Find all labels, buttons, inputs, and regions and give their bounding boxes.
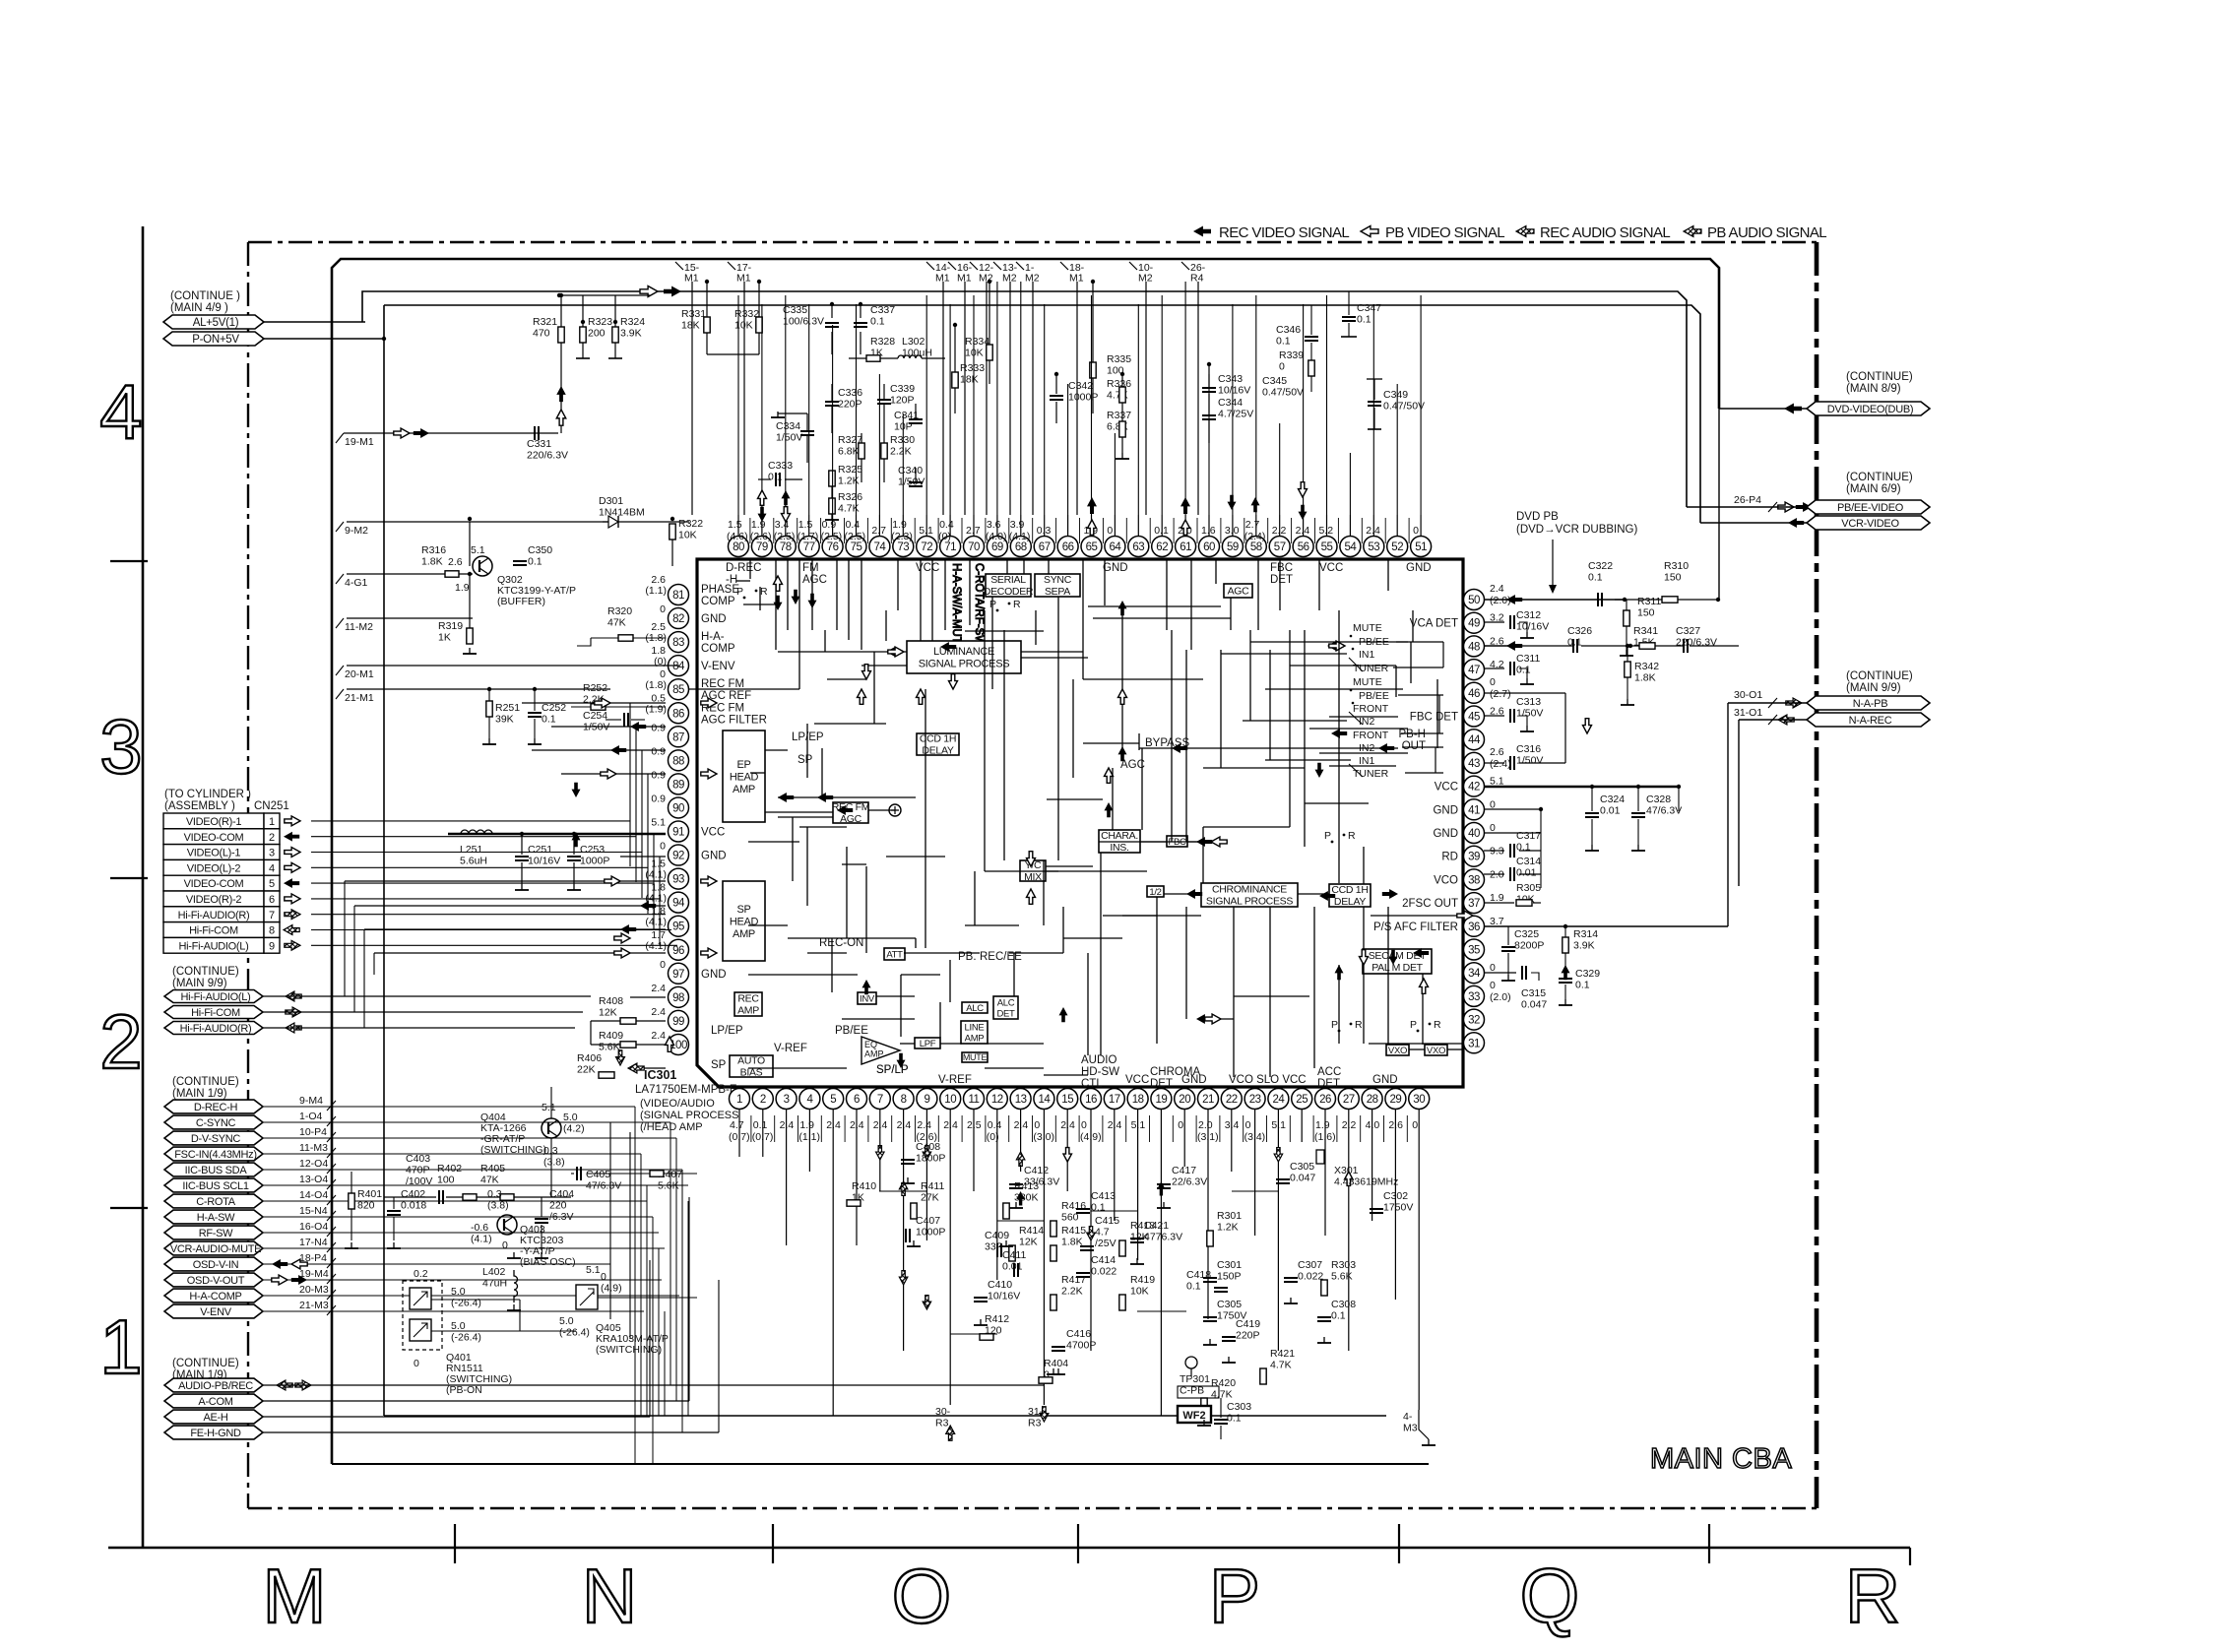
svg-text:10K: 10K [734,320,753,332]
svg-text:77: 77 [803,541,815,553]
svg-text:72: 72 [921,541,932,553]
svg-text:OUT: OUT [1402,740,1426,752]
svg-text:2: 2 [760,1094,766,1106]
svg-text:0.1: 0.1 [870,316,885,328]
svg-text:R417: R417 [1061,1274,1086,1286]
svg-text:1750V: 1750V [1217,1310,1246,1322]
svg-text:1K: 1K [438,632,451,644]
svg-text:0.047: 0.047 [1521,999,1547,1011]
svg-text:1750V: 1750V [1383,1202,1413,1214]
svg-text:M1: M1 [957,273,972,285]
svg-text:0: 0 [1490,676,1496,688]
svg-text:C409: C409 [985,1230,1009,1241]
svg-text:SEPA: SEPA [1045,586,1070,598]
svg-text:1: 1 [269,816,275,828]
svg-text:1: 1 [99,1303,150,1390]
svg-text:R410: R410 [852,1180,876,1192]
svg-text:3.6: 3.6 [987,519,1001,531]
svg-text:R319: R319 [438,620,463,632]
svg-text:GND: GND [1103,562,1128,574]
svg-text:1.8K: 1.8K [421,556,443,568]
svg-text:3.9: 3.9 [1010,519,1025,531]
svg-text:R321: R321 [533,316,557,328]
svg-text:21-M1: 21-M1 [345,692,374,704]
svg-text:5.0: 5.0 [451,1320,466,1332]
svg-text:0: 0 [1490,822,1496,834]
svg-text:C415: C415 [1095,1215,1119,1227]
svg-text:47K: 47K [480,1175,499,1186]
svg-text:C301: C301 [1217,1259,1242,1271]
svg-text:38: 38 [1468,874,1480,886]
svg-text:47/6.3V: 47/6.3V [1646,805,1682,817]
svg-text:C324: C324 [1600,794,1625,805]
svg-text:0.1: 0.1 [1567,637,1582,649]
svg-text:63: 63 [1132,541,1144,553]
svg-text:VXO: VXO [1388,1046,1407,1056]
svg-text:INV: INV [860,993,875,1004]
svg-text:C405: C405 [586,1169,610,1180]
svg-text:FE-H-GND: FE-H-GND [190,1428,241,1439]
svg-text:C416: C416 [1066,1328,1091,1340]
svg-text:LP/EP: LP/EP [711,1025,743,1037]
svg-text:ACC: ACC [1317,1066,1341,1078]
svg-text:33: 33 [1468,991,1480,1003]
svg-text:(1.8): (1.8) [645,679,667,691]
svg-text:(2.4): (2.4) [1244,531,1266,542]
svg-text:CHARA.: CHARA. [1101,830,1138,842]
svg-text:(CONTINUE): (CONTINUE) [172,1076,239,1088]
svg-text:Hi-Fi-AUDIO(R): Hi-Fi-AUDIO(R) [180,1023,252,1035]
svg-text:(-26.4): (-26.4) [451,1332,481,1344]
svg-text:Hi-Fi-AUDIO(R): Hi-Fi-AUDIO(R) [178,910,250,921]
svg-text:5.6K: 5.6K [599,1042,620,1053]
svg-text:12K: 12K [599,1007,617,1019]
svg-text:1.9: 1.9 [892,519,907,531]
svg-text:R: R [1348,830,1356,842]
svg-text:LPF: LPF [920,1039,936,1049]
svg-text:2.2K: 2.2K [890,446,912,458]
svg-text:(CONTINUE): (CONTINUE) [1846,371,1913,383]
svg-text:GND: GND [701,969,727,981]
svg-text:R323: R323 [588,316,612,328]
svg-text:20-M3: 20-M3 [299,1284,329,1296]
svg-text:AGC: AGC [840,813,862,825]
svg-text:FRONT: FRONT [1353,703,1389,715]
svg-text:R: R [1013,599,1021,610]
svg-text:2.4: 2.4 [651,1006,666,1018]
svg-text:GND: GND [1406,562,1432,574]
svg-text:C346: C346 [1276,324,1301,336]
svg-text:14-O4: 14-O4 [299,1189,328,1201]
svg-text:C-SYNC: C-SYNC [196,1117,236,1129]
svg-text:REC: REC [737,993,759,1005]
svg-text:R415: R415 [1061,1225,1086,1237]
svg-text:28: 28 [1367,1094,1378,1106]
svg-text:C342: C342 [1068,380,1093,392]
svg-text:87: 87 [672,731,684,743]
svg-text:MUTE: MUTE [1353,676,1382,688]
svg-text:2.4: 2.4 [651,1030,666,1042]
svg-text:12-O4: 12-O4 [299,1158,328,1170]
svg-text:C315: C315 [1521,987,1546,999]
svg-text:R330: R330 [890,434,915,446]
svg-text:MUTE: MUTE [1353,622,1382,634]
svg-text:35: 35 [1468,945,1480,957]
svg-text:V-REF: V-REF [774,1043,807,1054]
svg-text:39K: 39K [495,714,514,726]
svg-text:25: 25 [1296,1094,1308,1106]
svg-text:4.7K: 4.7K [1270,1360,1292,1371]
svg-text:47uH: 47uH [482,1278,507,1290]
svg-text:11-M3: 11-M3 [299,1142,328,1154]
svg-text:150P: 150P [1217,1271,1242,1283]
svg-text:(4.1): (4.1) [645,917,667,928]
svg-text:C322: C322 [1588,560,1613,572]
svg-text:65: 65 [1086,541,1098,553]
svg-text:IC301: IC301 [644,1068,676,1082]
svg-text:(2.5): (2.5) [774,531,796,542]
svg-text:R333: R333 [960,362,985,374]
svg-text:9-M2: 9-M2 [345,525,368,537]
svg-text:VIDEO(R)-2: VIDEO(R)-2 [186,894,241,906]
svg-text:2.7: 2.7 [966,525,981,537]
svg-text:0: 0 [1245,1119,1251,1131]
svg-text:95: 95 [672,921,684,933]
svg-text:VIDEO(L)-2: VIDEO(L)-2 [187,862,241,874]
svg-text:0.022: 0.022 [1298,1271,1323,1283]
svg-text:R301: R301 [1217,1210,1242,1222]
svg-text:4700P: 4700P [1066,1340,1096,1352]
svg-text:C252: C252 [542,702,566,714]
svg-text:R311: R311 [1637,596,1661,607]
svg-text:R320: R320 [607,605,632,617]
svg-text:75: 75 [851,541,862,553]
svg-text:0: 0 [1107,525,1113,537]
svg-text:OSD-V-OUT: OSD-V-OUT [187,1275,245,1287]
svg-text:(2.0): (2.0) [1490,991,1511,1003]
svg-text:0.3: 0.3 [543,1145,558,1157]
svg-text:VCO: VCO [1434,874,1458,886]
svg-text:46: 46 [1468,688,1480,700]
svg-text:C334: C334 [776,420,800,432]
svg-text:220: 220 [549,1200,567,1212]
svg-text:PB/EE-VIDEO: PB/EE-VIDEO [1837,502,1904,514]
svg-text:820: 820 [357,1200,375,1212]
svg-text:4: 4 [99,368,150,455]
svg-text:0.01: 0.01 [1002,1261,1023,1273]
svg-text:C314: C314 [1516,856,1541,867]
svg-text:10-P4: 10-P4 [299,1126,327,1138]
svg-text:AMP: AMP [737,1005,759,1017]
svg-text:C347: C347 [1357,302,1381,314]
svg-text:200: 200 [588,328,606,340]
svg-text:0.3: 0.3 [487,1188,502,1200]
svg-text:R: R [1434,1019,1441,1031]
svg-text:RD: RD [1441,852,1458,863]
svg-text:DELAY: DELAY [1334,896,1366,908]
svg-text:5.6K: 5.6K [1331,1271,1353,1283]
svg-text:4-G1: 4-G1 [345,577,368,589]
svg-text:C345: C345 [1262,375,1287,387]
svg-text:M2: M2 [1025,273,1040,285]
svg-text:C327: C327 [1676,625,1700,637]
svg-text:N-A-PB: N-A-PB [1853,698,1887,710]
svg-text:4.7: 4.7 [730,1119,744,1131]
svg-text:(CONTINUE ): (CONTINUE ) [170,290,240,302]
svg-text:1000P: 1000P [1068,392,1098,404]
svg-text:54: 54 [1345,541,1358,553]
svg-text:R3: R3 [935,1418,949,1430]
svg-text:IN1: IN1 [1359,755,1375,767]
svg-text:VCR-AUDIO-MUTE: VCR-AUDIO-MUTE [170,1243,261,1255]
svg-text:C412: C412 [1024,1165,1049,1176]
svg-text:C404: C404 [549,1188,574,1200]
svg-text:59: 59 [1227,541,1239,553]
svg-text:0: 0 [660,959,666,971]
svg-text:C325: C325 [1514,928,1539,940]
svg-text:30-O1: 30-O1 [1734,689,1762,701]
svg-text:COMP: COMP [701,596,735,607]
svg-text:18: 18 [1132,1094,1144,1106]
svg-text:IIC-BUS SDA: IIC-BUS SDA [185,1165,248,1176]
svg-text:Hi-Fi-COM: Hi-Fi-COM [191,1007,240,1019]
svg-text:2.4: 2.4 [1366,525,1380,537]
svg-text:(PB-ON: (PB-ON [446,1384,482,1396]
svg-text:R337: R337 [1107,410,1131,421]
svg-text:C331: C331 [527,438,551,450]
svg-text:0: 0 [660,841,666,853]
svg-text:3.9K: 3.9K [1573,940,1595,952]
svg-text:(1.9): (1.9) [645,703,667,715]
svg-text:C417: C417 [1172,1165,1196,1176]
svg-text:SP: SP [711,1059,727,1071]
svg-text:40: 40 [1468,828,1480,840]
svg-text:AMP: AMP [965,1033,985,1044]
svg-text:AGC FILTER: AGC FILTER [701,714,767,726]
svg-text:R326: R326 [838,491,862,503]
svg-text:GND: GND [1433,828,1458,840]
svg-text:CTL: CTL [1081,1078,1103,1090]
svg-text:98: 98 [672,992,684,1004]
svg-text:42: 42 [1468,782,1480,794]
svg-text:85: 85 [672,684,684,696]
svg-text:R411: R411 [921,1180,944,1192]
svg-text:64: 64 [1110,541,1122,553]
svg-text:9.3: 9.3 [1490,846,1504,858]
svg-text:96: 96 [672,945,684,957]
svg-text:0.1: 0.1 [1154,525,1169,537]
svg-text:DVD PB: DVD PB [1516,511,1559,523]
svg-text:4.7: 4.7 [1095,1227,1110,1239]
svg-text:69: 69 [991,541,1003,553]
svg-text:C344: C344 [1218,397,1243,409]
svg-text:INS.: INS. [1110,842,1128,854]
svg-text:M3: M3 [1403,1423,1418,1434]
svg-text:0: 0 [1034,1119,1040,1131]
svg-text:94: 94 [672,898,685,910]
svg-text:83: 83 [672,637,684,649]
svg-text:30-: 30- [935,1406,951,1418]
svg-text:(4.1): (4.1) [645,869,667,881]
svg-text:M1: M1 [935,273,950,285]
svg-text:R303: R303 [1331,1259,1356,1271]
svg-text:0.1: 0.1 [1091,1202,1106,1214]
svg-text:22: 22 [1226,1094,1238,1106]
svg-text:SIGNAL PROCESS: SIGNAL PROCESS [919,659,1010,670]
svg-text:AMP: AMP [733,928,755,940]
svg-text:9: 9 [924,1094,929,1106]
svg-text:C414: C414 [1091,1254,1116,1266]
svg-text:82: 82 [672,613,684,625]
svg-text:20: 20 [1179,1094,1190,1106]
svg-text:2.2: 2.2 [1272,525,1287,537]
svg-text:REC VIDEO SIGNAL: REC VIDEO SIGNAL [1219,224,1349,241]
svg-text:Hi-Fi-AUDIO(L): Hi-Fi-AUDIO(L) [179,940,249,952]
svg-text:M2: M2 [1138,273,1153,285]
svg-text:DET: DET [1317,1078,1340,1090]
svg-text:REC AUDIO SIGNAL: REC AUDIO SIGNAL [1540,224,1670,241]
svg-text:/100V: /100V [406,1175,432,1187]
svg-text:67: 67 [1039,541,1051,553]
svg-text:27: 27 [1343,1094,1355,1106]
svg-text:(MAIN 1/9): (MAIN 1/9) [172,1088,227,1100]
svg-text:H-A-SW/A-MUTE: H-A-SW/A-MUTE [950,563,962,652]
svg-text:0: 0 [1413,525,1419,537]
svg-text:1.8K: 1.8K [1061,1237,1083,1248]
svg-text:L302: L302 [902,336,925,348]
svg-text:WF2: WF2 [1182,1410,1205,1422]
svg-text:5.0: 5.0 [559,1315,574,1327]
svg-text:(DVD→VCR DUBBING): (DVD→VCR DUBBING) [1516,524,1637,536]
svg-text:79: 79 [756,541,768,553]
svg-text:P: P [1209,1553,1268,1639]
svg-text:0.1: 0.1 [1575,980,1590,991]
svg-text:C336: C336 [838,387,862,399]
svg-text:0: 0 [1490,980,1496,991]
svg-text:C311: C311 [1516,653,1540,665]
svg-text:AL+5V(1): AL+5V(1) [193,317,239,329]
svg-text:9-M4: 9-M4 [299,1095,323,1107]
svg-text:0.4: 0.4 [939,519,954,531]
svg-text:IN2: IN2 [1359,716,1375,728]
svg-text:37: 37 [1468,898,1480,910]
svg-text:61: 61 [1180,541,1191,553]
svg-text:P: P [1410,1019,1417,1031]
svg-text:R316: R316 [421,544,446,556]
svg-text:R405: R405 [480,1163,505,1175]
svg-text:100/6.3V: 100/6.3V [783,316,824,328]
svg-text:SERIAL: SERIAL [990,574,1026,586]
svg-text:DECODER: DECODER [984,586,1034,598]
svg-text:1.9: 1.9 [455,582,470,594]
svg-text:23: 23 [1249,1094,1261,1106]
svg-text:5.0: 5.0 [451,1286,466,1298]
svg-text:FSC-IN(4.43MHz): FSC-IN(4.43MHz) [174,1149,257,1161]
svg-text:1.9: 1.9 [751,519,766,531]
svg-text:0.1: 0.1 [1516,842,1531,854]
svg-text:O: O [892,1553,960,1639]
svg-text:P-ON+5V: P-ON+5V [192,334,239,346]
svg-text:0.1: 0.1 [542,714,556,726]
svg-text:/25V: /25V [1095,1238,1116,1249]
svg-text:DET: DET [1150,1078,1173,1090]
svg-text:VCC: VCC [1435,782,1458,794]
svg-text:R322: R322 [678,518,703,530]
svg-text:0.1: 0.1 [1331,1310,1346,1322]
svg-text:R328: R328 [870,336,895,348]
svg-text:C308: C308 [1331,1299,1356,1310]
svg-text:220/6.3V: 220/6.3V [1676,637,1717,649]
svg-text:VCC: VCC [701,827,725,839]
svg-text:VCC: VCC [1319,562,1343,574]
svg-text:5.6K: 5.6K [658,1180,679,1192]
svg-text:27K: 27K [921,1192,939,1204]
svg-text:49: 49 [1468,618,1480,630]
svg-text:12K: 12K [1019,1237,1038,1248]
svg-text:OSD-V-IN: OSD-V-IN [193,1259,239,1271]
svg-text:100: 100 [437,1175,455,1186]
svg-text:VCC: VCC [916,562,939,574]
svg-text:18K: 18K [681,320,700,332]
svg-text:47/6.3V: 47/6.3V [586,1180,621,1192]
svg-text:PB VIDEO SIGNAL: PB VIDEO SIGNAL [1385,224,1504,241]
svg-text:-H: -H [726,574,737,586]
svg-text:DET: DET [1270,574,1293,586]
svg-text:VXO: VXO [1427,1046,1445,1056]
svg-text:R339: R339 [1279,349,1304,361]
svg-text:60: 60 [1203,541,1215,553]
svg-text:(1.7): (1.7) [797,531,819,542]
svg-text:LINE: LINE [965,1022,985,1033]
svg-text:26: 26 [1319,1094,1331,1106]
svg-text:(SWITCHING): (SWITCHING) [480,1144,546,1156]
svg-text:0: 0 [1279,361,1285,373]
svg-text:32: 32 [1468,1015,1480,1027]
svg-text:17: 17 [1109,1094,1120,1106]
svg-text:R4: R4 [1190,273,1204,285]
svg-text:0.1: 0.1 [528,556,542,568]
svg-text:5.2: 5.2 [1319,525,1334,537]
svg-text:99: 99 [672,1016,684,1028]
svg-text:AMP: AMP [733,784,755,795]
svg-text:PB-H: PB-H [1399,729,1426,740]
svg-text:(BUFFER): (BUFFER) [497,596,545,607]
svg-text:PB AUDIO SIGNAL: PB AUDIO SIGNAL [1707,224,1826,241]
svg-text:31: 31 [1468,1038,1480,1049]
svg-text:1N414BM: 1N414BM [599,507,645,519]
svg-text:AMP: AMP [864,1049,884,1059]
svg-text:R413: R413 [1014,1180,1039,1192]
svg-text:C317: C317 [1516,830,1541,842]
svg-text:A-COM: A-COM [198,1396,232,1408]
svg-text:7: 7 [877,1094,883,1106]
svg-text:220/6.3V: 220/6.3V [527,450,568,462]
svg-text:(2.6): (2.6) [750,531,772,542]
svg-text:39: 39 [1468,852,1480,863]
svg-text:VCO SLO VCC: VCO SLO VCC [1229,1074,1307,1086]
svg-text:220P: 220P [1236,1330,1260,1342]
svg-text:SIGNAL PROCESS: SIGNAL PROCESS [1206,896,1293,908]
svg-text:45: 45 [1468,712,1480,724]
svg-text:C411: C411 [1002,1249,1026,1261]
svg-text:1000P: 1000P [580,856,609,867]
svg-text:C253: C253 [580,844,605,856]
svg-text:0.1: 0.1 [753,1119,768,1131]
svg-text:5.1: 5.1 [651,817,666,829]
svg-text:0.1: 0.1 [1186,1281,1201,1293]
svg-text:220P: 220P [838,399,862,411]
svg-text:8: 8 [269,925,275,937]
